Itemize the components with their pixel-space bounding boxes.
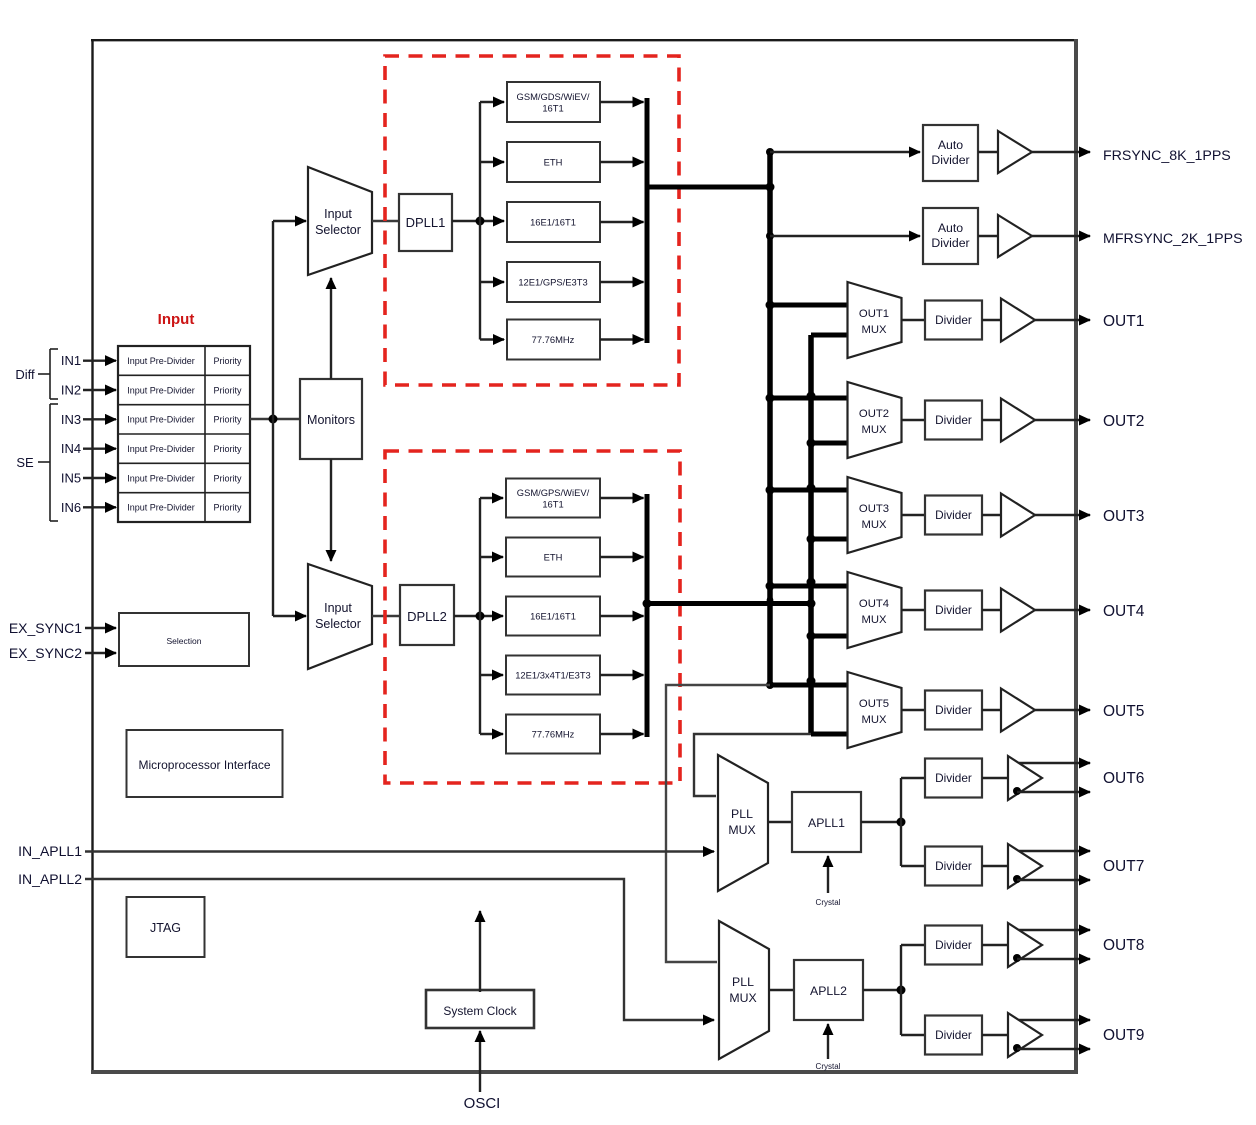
divider block OUT1 [925,301,982,340]
divider block OUT8 [925,926,982,965]
wire PLL MUX2 to APLL2 [769,989,794,991]
APLL2 block [794,960,863,1020]
wires DPLL2 blocks to collect bus [600,498,644,734]
svg-text:Input: Input [158,311,195,328]
bus B: DPLL2 distribution bus (thick vertical) [807,335,848,734]
svg-text:System Clock: System Clock [443,1004,517,1018]
wire OUT1 mux to divider [902,319,926,321]
PLL MUX1 (trapezoid) [718,755,768,891]
svg-text:Divider: Divider [935,859,972,873]
wire bus A to auto divider 1 [770,151,920,153]
svg-text:MUX: MUX [861,519,887,531]
svg-text:Crystal: Crystal [816,898,841,907]
divider block OUT4 [925,591,982,630]
port IN2 [61,383,116,398]
red dashed box DPLL1 region [385,56,679,385]
wire Monitors to selector2 [330,459,332,561]
svg-text:OUT8: OUT8 [1103,937,1144,954]
svg-text:Priority: Priority [213,385,242,395]
buffer OUT4 (triangle) [982,589,1035,632]
output OUT9 differential pair [1017,1020,1144,1049]
monitors block [300,379,362,459]
wire DPLL1 to fan junction [452,217,504,226]
wire bus A to PLL MUX2 upper input [666,685,770,962]
svg-text:Input Pre-Divider: Input Pre-Divider [127,356,195,366]
OUT4 MUX (trapezoid) [848,572,902,648]
svg-text:OUT9: OUT9 [1103,1027,1144,1044]
wires bus B to OUT2-OUT4 mux lower inputs (thick) [811,443,847,636]
svg-text:OUT3: OUT3 [1103,508,1144,525]
DPLL1 collect bus (thick) [645,98,650,343]
svg-text:OUT6: OUT6 [1103,770,1144,787]
svg-text:Divider: Divider [935,703,972,717]
port IN3 [61,412,116,427]
OUT2 MUX (trapezoid) [848,382,902,458]
SE group bracket [16,404,58,521]
DPLL1 output block 77.76MHz [507,320,600,360]
divider block OUT3 [925,496,982,535]
svg-text:IN4: IN4 [61,441,81,456]
svg-text:OSCI: OSCI [464,1095,501,1112]
svg-text:Input Pre-Divider: Input Pre-Divider [127,444,195,454]
svg-text:77.76MHz: 77.76MHz [532,334,575,345]
input pre-divider / priority table [118,346,250,522]
wire DPLL1 bus to main bus A (thick) [645,183,775,192]
wire OUT3 mux to divider [902,514,926,516]
divider block OUT5 [925,691,982,730]
svg-text:MUX: MUX [729,991,756,1005]
svg-text:EX_SYNC2: EX_SYNC2 [9,645,82,661]
DPLL1 output block GSM/GDS/WiEV/ [507,82,600,122]
input selector 1 (mux trapezoid) [308,167,372,275]
svg-text:Input Pre-Divider: Input Pre-Divider [127,503,195,513]
svg-text:IN_APLL2: IN_APLL2 [18,871,82,887]
svg-text:Divider: Divider [935,1028,972,1042]
input EX_SYNC2 [9,645,116,661]
wire OUT2 mux to divider [902,419,926,421]
OUT3 MUX (trapezoid) [848,477,902,553]
svg-text:MFRSYNC_2K_1PPS: MFRSYNC_2K_1PPS [1103,231,1243,247]
port IN4 [61,441,116,456]
output OUT3 [1035,508,1144,525]
OSCI input [464,1031,501,1112]
svg-text:16E1/16T1: 16E1/16T1 [530,611,576,622]
input selector 2 (mux trapezoid) [308,564,372,669]
wires DPLL2 fan stubs [480,498,503,734]
svg-text:16T1: 16T1 [542,499,563,510]
svg-text:OUT5: OUT5 [1103,703,1144,720]
svg-text:FRSYNC_8K_1PPS: FRSYNC_8K_1PPS [1103,148,1231,164]
selection block [119,613,249,666]
svg-text:Priority: Priority [213,473,242,483]
DPLL1 output block ETH [507,142,600,182]
svg-text:MUX: MUX [861,424,887,436]
wire table to Monitors with junction [250,415,300,424]
svg-text:IN2: IN2 [61,383,81,398]
wires bus A to OUT1-OUT4 mux upper inputs (thick) [770,305,847,586]
svg-text:IN3: IN3 [61,412,81,427]
svg-text:Divider: Divider [931,153,969,167]
svg-text:PLL: PLL [732,975,754,989]
wire APLL1 to dividers with junction [861,778,925,866]
wire APLL2 to dividers with junction [863,945,925,1035]
auto divider 2 block [923,208,978,264]
svg-text:IN_APLL1: IN_APLL1 [18,843,82,859]
svg-text:77.76MHz: 77.76MHz [532,729,575,740]
input IN_APLL2 [18,871,714,1020]
svg-text:Divider: Divider [935,603,972,617]
Diff group bracket [15,349,58,399]
svg-text:IN5: IN5 [61,471,81,486]
divider block OUT6 [925,759,982,798]
svg-text:Priority: Priority [213,444,242,454]
svg-text:Divider: Divider [935,938,972,952]
differential buffer OUT9 (triangle with bubble) [982,1013,1042,1057]
crystal arrow APLL2 [816,1024,841,1071]
wire OUT5 mux to divider [902,709,926,711]
svg-text:Divider: Divider [935,413,972,427]
svg-text:DPLL1: DPLL1 [406,215,446,230]
DPLL2 collect bus (thick) [645,494,650,737]
svg-text:12E1/GPS/E3T3: 12E1/GPS/E3T3 [518,277,587,288]
DPLL2 output block 12E1/3x4T1/E3T3 [506,656,600,695]
buffer OUT5 (triangle) [982,689,1035,732]
DPLL2 output block ETH [506,538,600,577]
OUT5 MUX (trapezoid) [848,672,902,748]
wire DPLL2 to fan junction [454,612,503,621]
svg-text:OUT1: OUT1 [1103,313,1144,330]
DPLL2 output block 16E1/16T1 [506,597,600,636]
svg-text:Input: Input [324,207,352,221]
wire DPLL2 fan vertical [479,498,481,734]
wire selector1 to DPLL1 [372,220,399,222]
svg-text:16T1: 16T1 [542,103,563,114]
buffer MFRSYNC (triangle) [978,215,1032,257]
svg-text:APLL1: APLL1 [808,816,845,830]
svg-text:12E1/3x4T1/E3T3: 12E1/3x4T1/E3T3 [515,670,591,681]
svg-text:Input Pre-Divider: Input Pre-Divider [127,473,195,483]
svg-text:Divider: Divider [935,771,972,785]
wire bus B to PLL MUX1 upper input [694,734,811,796]
svg-text:Priority: Priority [213,415,242,425]
wires DPLL1 fan stubs [480,102,504,340]
svg-text:OUT2: OUT2 [1103,413,1144,430]
svg-text:OUT2: OUT2 [859,408,889,420]
divider block OUT7 [925,847,982,886]
DPLL2 output block GSM/GPS/WiEV/ [506,479,600,518]
input IN_APLL1 [18,843,714,859]
buffer OUT3 (triangle) [982,494,1035,537]
PLL MUX2 (trapezoid) [719,921,769,1059]
svg-text:Input: Input [324,601,352,615]
wire OUT4 mux to divider [902,609,926,611]
output OUT8 differential pair [1017,930,1144,959]
svg-text:OUT3: OUT3 [859,503,889,515]
svg-text:MUX: MUX [728,823,755,837]
svg-text:Monitors: Monitors [307,413,355,427]
DPLL2 block [400,585,454,645]
port IN5 [61,471,116,486]
output OUT6 differential pair [1017,763,1144,792]
svg-text:MUX: MUX [861,324,887,336]
svg-text:Input Pre-Divider: Input Pre-Divider [127,415,195,425]
buffer OUT1 (triangle) [982,299,1035,342]
output MFRSYNC_2K_1PPS [1032,231,1243,247]
buffer OUT2 (triangle) [982,399,1035,442]
OUT1 MUX (trapezoid) [848,282,902,358]
output OUT1 [1035,313,1144,330]
svg-text:Crystal: Crystal [816,1062,841,1071]
svg-text:EX_SYNC1: EX_SYNC1 [9,620,82,636]
svg-text:OUT4: OUT4 [1103,603,1145,620]
port IN1 [61,353,116,368]
wire Monitors to selector1 [330,278,332,379]
output OUT7 differential pair [1017,851,1144,880]
crystal arrow APLL1 [816,856,841,907]
svg-text:PLL: PLL [731,807,753,821]
svg-text:Auto: Auto [938,138,963,152]
output OUT5 [1035,703,1144,720]
svg-text:Diff: Diff [15,367,35,382]
system clock output arrow [479,911,481,992]
svg-text:ETH: ETH [544,157,563,168]
auto divider 1 block [923,125,978,181]
svg-text:MUX: MUX [861,714,887,726]
svg-text:Divider: Divider [935,313,972,327]
svg-text:OUT7: OUT7 [1103,858,1144,875]
DPLL1 output block 12E1/GPS/E3T3 [507,262,600,302]
svg-text:OUT4: OUT4 [859,598,889,610]
svg-text:ETH: ETH [544,552,563,563]
svg-text:GSM/GDS/WiEV/: GSM/GDS/WiEV/ [517,91,590,102]
red label Input [158,311,195,328]
svg-text:DPLL2: DPLL2 [407,609,447,624]
bus A: DPLL1 distribution bus (thick vertical) [766,148,848,689]
output OUT2 [1035,413,1144,430]
svg-text:SE: SE [16,455,34,470]
differential buffer OUT7 (triangle with bubble) [982,844,1042,888]
port IN6 [61,500,116,515]
input EX_SYNC1 [9,620,116,636]
red dashed box DPLL2 region [385,451,680,783]
svg-text:JTAG: JTAG [150,921,181,935]
wire bus A to auto divider 2 [770,235,920,237]
buffer FRSYNC (triangle) [978,131,1032,173]
DPLL1 block [399,194,452,251]
svg-text:Microprocessor Interface: Microprocessor Interface [138,758,270,772]
divider block OUT2 [925,401,982,440]
svg-text:Auto: Auto [938,221,963,235]
svg-text:Selection: Selection [167,636,202,646]
svg-text:Selector: Selector [315,223,361,237]
DPLL1 output block 16E1/16T1 [507,202,600,242]
svg-text:Priority: Priority [213,503,242,513]
DPLL2 output block 77.76MHz [506,715,600,754]
differential buffer OUT6 (triangle with bubble) [982,756,1042,800]
wire selector2 to DPLL2 [372,615,400,617]
svg-text:OUT5: OUT5 [859,698,889,710]
svg-text:OUT1: OUT1 [859,308,889,320]
differential buffer OUT8 (triangle with bubble) [982,923,1042,967]
svg-text:APLL2: APLL2 [810,984,847,998]
svg-text:Priority: Priority [213,356,242,366]
svg-text:IN6: IN6 [61,500,81,515]
wires DPLL1 blocks to collect bus [600,102,644,340]
JTAG block [127,897,205,957]
wire DPLL1 fan vertical [479,102,481,340]
microprocessor interface block [127,730,283,797]
svg-text:MUX: MUX [861,614,887,626]
wire riser to input selectors [273,221,306,616]
svg-text:Divider: Divider [935,508,972,522]
svg-text:GSM/GPS/WiEV/: GSM/GPS/WiEV/ [517,487,590,498]
chip boundary (device outline) [91,39,1078,1074]
output FRSYNC_8K_1PPS [1032,148,1231,164]
wire PLL MUX1 to APLL1 [768,821,792,823]
APLL1 block [792,792,861,852]
wire DPLL2 bus to bus B (thick) [643,597,816,608]
system clock block [426,990,534,1028]
svg-text:Divider: Divider [931,236,969,250]
svg-text:Selector: Selector [315,617,361,631]
output OUT4 [1035,603,1145,620]
svg-text:IN1: IN1 [61,353,81,368]
svg-text:Input Pre-Divider: Input Pre-Divider [127,385,195,395]
divider block OUT9 [925,1016,982,1055]
svg-text:16E1/16T1: 16E1/16T1 [530,217,576,228]
